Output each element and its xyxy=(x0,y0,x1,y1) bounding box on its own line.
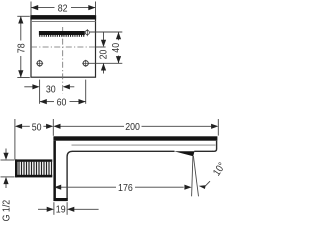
svg-text:60: 60 xyxy=(57,97,67,109)
slot teeth xyxy=(39,35,84,37)
svg-text:50: 50 xyxy=(32,122,42,134)
dimension 20 (centerline to holes) xyxy=(103,32,105,41)
plate outline front view xyxy=(31,16,96,77)
water stream reference line (vertical) xyxy=(192,156,193,196)
spout underside right segment xyxy=(194,150,213,152)
G 1/2 dimension xyxy=(1,149,15,189)
dimension 40 (slot to holes) xyxy=(118,32,120,63)
dimension 82 (top width) xyxy=(31,2,96,16)
spout underside left segment xyxy=(72,150,174,152)
extension line from slot level xyxy=(90,31,123,33)
threaded inlet block G 1/2 xyxy=(15,159,52,161)
spout top shelf (side) xyxy=(53,136,217,140)
dimension 78 (left height) xyxy=(17,16,30,77)
extension lines below plate xyxy=(40,80,86,104)
svg-text:G 1/2: G 1/2 xyxy=(1,200,13,222)
slot end screw circle xyxy=(85,30,89,34)
water stream line 10 deg xyxy=(193,156,198,196)
shelf lower line (side) xyxy=(72,144,216,146)
horizontal centerline xyxy=(31,46,96,48)
10 degree label xyxy=(199,185,206,189)
plate bottom edge xyxy=(53,198,67,201)
shelf lower edge line xyxy=(31,21,96,23)
inner corner fillet and plate front face xyxy=(67,151,73,198)
svg-text:19: 19 xyxy=(56,204,66,216)
thread hatch xyxy=(18,162,52,175)
svg-text:82: 82 xyxy=(58,3,68,15)
top shelf thick edge xyxy=(30,15,96,19)
dimension 30 (hole to center) xyxy=(24,86,33,88)
svg-text:30: 30 xyxy=(46,84,56,96)
svg-text:40: 40 xyxy=(110,42,122,52)
extension from centerline xyxy=(96,46,106,48)
outlet wedge xyxy=(174,151,195,156)
extension from screw hole level xyxy=(89,62,123,64)
dimension 60 (hole spacing) xyxy=(40,101,54,103)
dimension 200 (projection) xyxy=(60,119,218,136)
svg-text:78: 78 xyxy=(16,43,28,53)
spout right end edge xyxy=(213,141,217,152)
svg-text:176: 176 xyxy=(118,182,133,194)
screw hole left xyxy=(36,60,43,67)
waterfall slot xyxy=(39,31,85,35)
plate back edge xyxy=(53,141,56,199)
vertical centerline xyxy=(62,27,64,94)
dimension 50 (wall depth) xyxy=(15,119,53,160)
svg-text:20: 20 xyxy=(98,49,110,59)
dimension 176 xyxy=(61,186,184,188)
dimension 19 (plate thickness) xyxy=(38,202,99,215)
screw hole right xyxy=(82,60,89,67)
svg-text:200: 200 xyxy=(125,121,140,133)
